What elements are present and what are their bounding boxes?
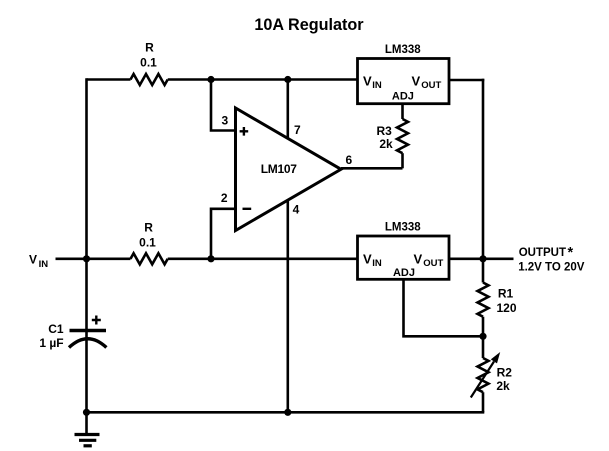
pin number 3 — [221, 114, 228, 128]
title: 10A Regulator — [254, 16, 364, 34]
node: junction bottom rail / pin4 — [284, 409, 291, 416]
svg-text:C1: C1 — [48, 322, 64, 336]
svg-text:OUTPUT: OUTPUT — [519, 247, 566, 259]
svg-text:R: R — [145, 41, 154, 55]
resistor R1 zigzag — [478, 283, 489, 317]
potentiometer R2 zigzag — [478, 358, 489, 392]
svg-text:6: 6 — [345, 153, 352, 167]
svg-text:1 µF: 1 µF — [39, 336, 63, 350]
node: junction top rail / pin3 branch — [207, 76, 214, 83]
wire: ADJ node to R2 — [482, 336, 485, 358]
node: junction top rail / pin7 branch — [284, 76, 291, 83]
label VIN pin (U3) — [363, 252, 382, 270]
label OUTPUT — [519, 245, 574, 261]
label R2 — [497, 365, 513, 379]
label VOUT pin (U2) — [412, 74, 442, 92]
wire: op-amp output to R3 — [341, 167, 403, 170]
svg-text:OUT: OUT — [423, 258, 443, 269]
svg-text:V: V — [363, 74, 372, 89]
svg-text:R1: R1 — [498, 287, 514, 301]
label 1.2V TO 20V — [518, 262, 585, 274]
resistor R3 zigzag — [397, 119, 408, 153]
potentiometer R2 arrow — [471, 352, 500, 398]
wire: bottom rail — [87, 411, 485, 414]
svg-text:OUT: OUT — [421, 80, 441, 91]
wire: pin 2 stub — [211, 209, 236, 259]
node: output junction — [479, 255, 486, 262]
wire: U3 VOUT to output node — [449, 257, 483, 260]
svg-text:10A Regulator: 10A Regulator — [254, 16, 364, 34]
node: junction R1 / R2 / ADJ — [479, 333, 486, 340]
regulator U3 LM338 (bottom) box — [358, 236, 450, 279]
svg-text:IN: IN — [372, 80, 382, 91]
label 120 (R1) — [496, 301, 516, 315]
label VIN (input terminal) — [29, 253, 48, 270]
svg-text:LM338: LM338 — [385, 222, 421, 234]
svg-text:V: V — [363, 252, 372, 267]
label ADJ pin (U2) — [392, 91, 414, 103]
pin number 4 — [293, 203, 300, 217]
svg-text:R: R — [144, 221, 153, 235]
wire: U2 VOUT to right rail — [449, 79, 484, 82]
label VOUT pin (U3) — [414, 252, 444, 270]
capacitor C1 top plate — [70, 329, 107, 332]
svg-text:0.1: 0.1 — [140, 56, 157, 70]
svg-text:ADJ: ADJ — [393, 267, 415, 279]
svg-text:1.2V TO 20V: 1.2V TO 20V — [518, 262, 585, 274]
svg-text:3: 3 — [221, 114, 228, 128]
wire: top rail left segment — [87, 78, 131, 81]
wire: right vertical rail upper — [482, 79, 485, 259]
label 1 uF — [39, 336, 63, 350]
regulator U2 LM338 (top) box — [358, 59, 450, 104]
label R3 — [377, 124, 393, 138]
label R (top resistor) — [145, 41, 154, 55]
wire: R2 bottom to bottom rail — [482, 392, 485, 412]
resistor R (top 0.1) — [131, 74, 168, 85]
label C1 — [48, 322, 64, 336]
wire: input rail to U3 VIN — [168, 257, 358, 260]
svg-text:LM107: LM107 — [261, 162, 297, 176]
wire: left vertical rail — [85, 78, 88, 412]
label ADJ pin (U3) — [393, 267, 415, 279]
svg-text:R2: R2 — [497, 365, 513, 379]
svg-text:120: 120 — [496, 301, 516, 315]
wire: input rail VIN to bottom resistor — [56, 257, 131, 260]
node: junction input rail / left rail — [83, 255, 90, 262]
svg-text:IN: IN — [372, 258, 382, 269]
svg-text:ADJ: ADJ — [392, 91, 414, 103]
svg-text:V: V — [29, 253, 37, 267]
svg-text:V: V — [412, 74, 421, 89]
svg-text:2: 2 — [221, 191, 228, 205]
wire: output stub — [483, 257, 514, 260]
label LM338 (top) — [385, 44, 421, 56]
label R1 — [498, 287, 514, 301]
label 2k (R3) — [379, 137, 393, 151]
svg-text:V: V — [414, 252, 423, 267]
pin number 6 — [345, 153, 352, 167]
label LM107 — [261, 162, 297, 176]
wire: top rail right segment to U1 — [168, 78, 358, 81]
pin number 7 — [294, 123, 301, 137]
svg-text:4: 4 — [293, 203, 300, 217]
svg-text:LM338: LM338 — [385, 44, 421, 56]
svg-text:*: * — [568, 245, 574, 261]
wire: pin 7 vertical — [286, 80, 289, 141]
capacitor C1 curved plate — [69, 339, 106, 348]
resistor R (bottom 0.1) — [131, 253, 168, 264]
svg-text:7: 7 — [294, 123, 301, 137]
label 0.1 (bottom resistor) — [139, 235, 156, 249]
wire: U2 ADJ stub to R3 — [401, 104, 404, 119]
svg-text:2k: 2k — [496, 379, 510, 393]
svg-text:IN: IN — [39, 259, 49, 270]
wire: R1 bottom to ADJ node — [482, 317, 485, 337]
label LM338 (bottom) — [385, 222, 421, 234]
ground symbol — [75, 412, 100, 446]
op-amp U1 LM107 triangle — [236, 108, 342, 231]
label 0.1 (top resistor) — [140, 56, 157, 70]
op-amp plus input symbol — [240, 127, 249, 136]
wire: output node to R1 — [482, 259, 485, 283]
svg-text:2k: 2k — [379, 137, 393, 151]
wire: R3 bottom to output node — [401, 153, 404, 168]
label VIN pin (U2) — [363, 74, 382, 92]
wire: U3 ADJ stub — [404, 279, 484, 336]
label 2k (R2) — [496, 379, 510, 393]
node: junction input rail / pin2 branch — [207, 255, 214, 262]
svg-text:0.1: 0.1 — [139, 235, 156, 249]
label R (bottom resistor) — [144, 221, 153, 235]
wire: pin 3 stub — [211, 80, 236, 131]
wire: pin 4 vertical down to bottom rail — [286, 200, 289, 412]
node: junction bottom rail / left rail — [83, 409, 90, 416]
op-amp minus input symbol — [243, 208, 252, 210]
capacitor C1 plus sign — [92, 316, 101, 325]
pin number 2 — [221, 191, 228, 205]
